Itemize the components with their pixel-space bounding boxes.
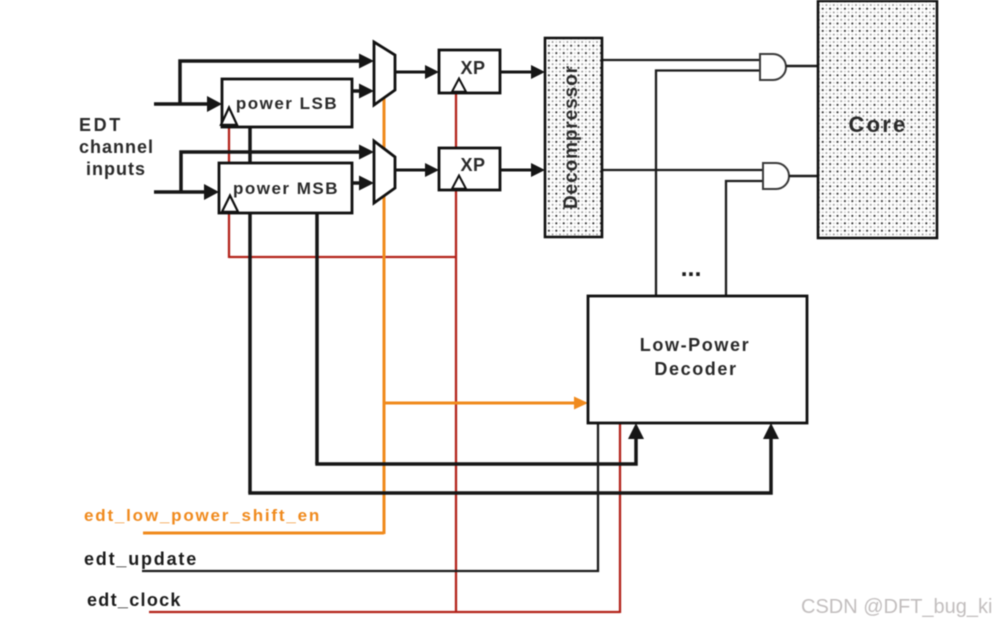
wire edt_clock vertical to register clocks <box>228 122 230 258</box>
svg-text:channel: channel <box>79 137 154 157</box>
wire EDT channel input 1 <box>154 102 208 106</box>
wire edt_clock vertical to decoder bottom <box>619 423 621 613</box>
wire AND2 lower input vertical <box>726 181 763 296</box>
svg-text:Core: Core <box>849 112 908 137</box>
arrowhead LSB output into mux1 <box>359 84 374 99</box>
arrowhead into decoder bottom right <box>763 423 779 439</box>
wire AND1 lower input vertical <box>656 71 759 297</box>
register power LSB <box>222 79 352 127</box>
wire MSB output to mux2 <box>352 181 366 185</box>
arrowhead into XP1 <box>425 65 439 79</box>
wire AND1 output to core <box>786 65 818 68</box>
wire power LSB output to decoder (under MSB box) <box>248 127 771 493</box>
wire XP2 output to decompressor <box>500 169 537 172</box>
wire edt_low_power_shift_en orange network <box>143 94 577 534</box>
wire LSB output to mux1 <box>352 89 366 93</box>
svg-text:XP: XP <box>460 58 485 78</box>
svg-text:...: ... <box>681 254 702 282</box>
AND gate G2 <box>763 163 789 189</box>
low-power decoder block <box>588 296 807 423</box>
pin clock triangle XP2 <box>452 176 466 189</box>
AND gate G1 <box>760 54 786 80</box>
wire orange branch to decoder <box>384 402 577 405</box>
decompressor block <box>545 38 602 237</box>
wire EDT channel input 2 <box>154 190 205 194</box>
wire AND2 output to core <box>789 175 818 178</box>
svg-text:power MSB: power MSB <box>233 179 339 198</box>
wire power MSB output to decoder <box>315 213 636 464</box>
label EDT channel inputs <box>79 115 154 179</box>
core block <box>818 1 937 238</box>
arrowhead into decompressor bottom <box>531 163 545 177</box>
arrowhead into decoder bottom left <box>628 423 644 439</box>
arrowhead input 2 into MSB <box>204 184 219 200</box>
flop XP1 <box>439 50 500 93</box>
svg-text:edt_clock: edt_clock <box>87 590 182 610</box>
wire mux2 output to XP2 <box>395 169 432 172</box>
arrowhead orange into decoder <box>574 397 588 410</box>
svg-text:edt_update: edt_update <box>84 549 198 569</box>
svg-text:EDT: EDT <box>79 115 123 135</box>
pin clock triangle MSB <box>222 196 238 212</box>
wire edt_clock red network <box>149 92 620 613</box>
svg-text:CSDN @DFT_bug_king: CSDN @DFT_bug_king <box>801 596 992 618</box>
svg-text:Low-Power: Low-Power <box>640 335 750 355</box>
svg-text:power LSB: power LSB <box>236 94 338 113</box>
svg-text:inputs: inputs <box>86 159 146 179</box>
arrowhead bypass into mux2 <box>359 145 374 160</box>
pin clock triangle XP1 <box>452 79 466 92</box>
arrowhead bypass into mux1 <box>359 54 374 69</box>
svg-text:edt_low_power_shift_en: edt_low_power_shift_en <box>84 506 321 525</box>
wire XP1 output to decompressor <box>500 71 537 74</box>
wire orange horizontal bottom <box>143 532 384 535</box>
flop XP2 <box>439 148 500 190</box>
wire mux1 output to XP1 <box>395 71 432 74</box>
mux M1 <box>374 42 395 105</box>
wire orange vertical to mux selects <box>383 94 386 534</box>
wire edt_clock horizontal bottom <box>149 611 620 613</box>
arrowhead input 1 into LSB <box>207 96 222 112</box>
arrowhead MSB output into mux2 <box>359 176 374 191</box>
wire edt_update <box>142 423 598 571</box>
wire bypass MSB to mux2 <box>181 152 368 194</box>
svg-text:Decompressor: Decompressor <box>561 65 582 209</box>
register power MSB <box>219 163 352 213</box>
wire decompressor output 1 <box>602 59 759 61</box>
wire edt_clock vertical to XP clocks <box>455 92 457 612</box>
svg-text:Decoder: Decoder <box>654 359 737 379</box>
mux M2 <box>374 141 395 203</box>
wire decompressor output 2 <box>602 169 763 171</box>
arrowhead into XP2 <box>425 163 439 177</box>
svg-text:XP: XP <box>460 155 485 175</box>
pin clock triangle LSB <box>221 108 237 125</box>
wire edt_clock horizontal branch y257 <box>229 256 457 258</box>
arrowhead into decompressor top <box>531 65 545 79</box>
wire bypass LSB to mux1 <box>180 61 368 106</box>
